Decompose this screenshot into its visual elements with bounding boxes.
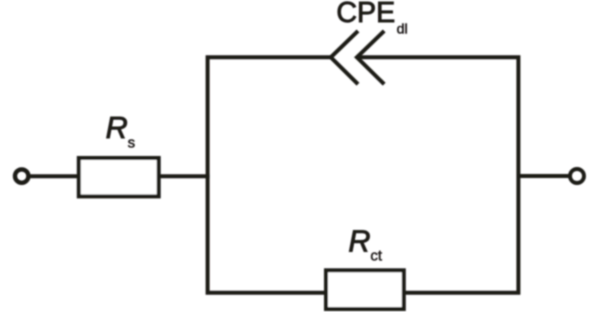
CPE U1 right chevron	[357, 31, 384, 84]
svg-text:CPE: CPE	[336, 0, 395, 29]
svg-text:s: s	[128, 135, 136, 152]
svg-text:ct: ct	[370, 247, 383, 264]
wire left terminal to Rs	[30, 174, 81, 178]
resistor Rct	[326, 270, 404, 309]
resistor Rs	[79, 158, 159, 196]
wire right junction to right terminal	[518, 174, 569, 178]
svg-text:R: R	[348, 224, 370, 258]
wire left branch (top-left, left vertical, bottom-left)	[208, 57, 331, 292]
svg-text:R: R	[106, 111, 128, 145]
wire Rs to left junction	[157, 174, 210, 178]
CPE U1 left chevron	[331, 31, 358, 84]
right terminal	[570, 169, 584, 183]
wire right branch (top-right, right vertical, bottom-right)	[357, 57, 518, 292]
left terminal	[15, 169, 28, 182]
svg-text:dl: dl	[397, 21, 408, 37]
